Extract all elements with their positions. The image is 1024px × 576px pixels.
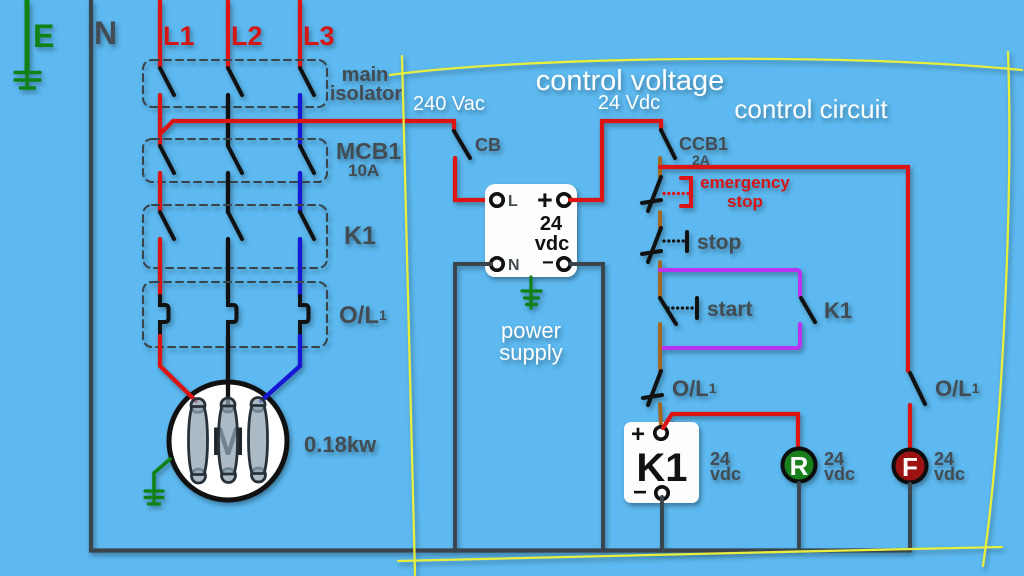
brown control bus O/L1 to K1 coil [660, 404, 661, 428]
svg-text:control circuit: control circuit [734, 94, 888, 124]
wire L2 to motor [226, 337, 230, 410]
svg-text:24 Vdc: 24 Vdc [598, 92, 660, 114]
svg-text:O/L1: O/L1 [339, 302, 387, 329]
svg-text:+: + [631, 421, 645, 448]
svg-text:+: + [537, 185, 553, 215]
svg-text:O/L1: O/L1 [935, 376, 980, 401]
wire L1 MCB1 to K1 [158, 173, 162, 212]
earth symbol E [15, 72, 40, 88]
svg-text:stop: stop [697, 231, 741, 254]
svg-text:isolator: isolator [330, 83, 402, 105]
motor earth symbol [145, 488, 163, 504]
yellow freehand frame bottom edge [398, 547, 1002, 561]
240 Vac tap wire [160, 121, 454, 134]
breaker CCB1 blade [661, 130, 675, 158]
svg-text:stop: stop [727, 192, 763, 211]
motor M1 body [169, 382, 287, 500]
motor earth wire [154, 459, 170, 488]
svg-text:supply: supply [499, 340, 563, 365]
main isolator pole 3 blade [300, 68, 314, 95]
motor winding 3 [249, 398, 268, 483]
svg-text:L: L [508, 193, 518, 210]
wire L2 K1 to O/L1 [226, 239, 230, 298]
brown control bus start to O/L1 [658, 324, 662, 371]
K1 coil box [624, 422, 699, 503]
O/L1 trip contact (NC) [648, 371, 661, 405]
wire L3 MCB1 to K1 [298, 173, 302, 212]
emergency stop mushroom head [681, 178, 691, 206]
wire power supply plus to CCB1 [570, 121, 661, 200]
yellow freehand frame top edge [390, 59, 1022, 75]
red feed wire to right branch [660, 167, 908, 371]
brown control bus e-stop to stop [658, 212, 662, 228]
wire L1 isolator to MCB1 [158, 95, 162, 146]
K1 pole 1 blade [160, 212, 174, 239]
svg-text:F: F [902, 452, 918, 482]
MCB1 pole 1 blade [160, 146, 174, 173]
power supply earth wire [529, 277, 532, 308]
O/L1 heater element pole 1 [160, 296, 169, 337]
wire L1 K1 to O/L1 [158, 239, 162, 297]
F lamp wire to rail [908, 484, 912, 549]
K1 hold-in branch (purple) upper [660, 270, 800, 296]
K1 auxiliary contact blade [801, 298, 815, 322]
svg-text:−: − [633, 479, 647, 506]
svg-text:K1: K1 [824, 298, 852, 323]
phase conductor L3 top [298, 0, 302, 68]
motor winding 2 [219, 398, 238, 483]
wire L1 to motor [160, 336, 196, 401]
right O/L1 contact blade [910, 373, 925, 404]
svg-text:CB: CB [475, 135, 501, 155]
emergency stop contact (NC) [648, 177, 661, 211]
svg-text:emergency: emergency [700, 173, 790, 192]
svg-text:L1: L1 [163, 21, 195, 51]
wire L2 isolator to MCB1 [226, 95, 230, 146]
svg-text:0.18kw: 0.18kw [304, 432, 377, 457]
motor winding 1 [189, 399, 208, 484]
svg-text:CCB1: CCB1 [679, 134, 728, 154]
R lamp [783, 449, 816, 482]
wire L3 to motor [261, 336, 300, 401]
svg-text:L2: L2 [231, 21, 263, 51]
contactor K1 enclosure (dashed) [143, 205, 327, 268]
svg-text:L3: L3 [303, 21, 335, 51]
svg-text:E: E [33, 18, 54, 54]
wire O/L1 to F lamp [908, 405, 912, 447]
main isolator pole 1 blade [160, 68, 174, 95]
phase conductor L1 top [158, 0, 162, 68]
wire L3 K1 to O/L1 [298, 239, 302, 297]
yellow freehand frame right edge [983, 52, 1009, 566]
stop dotted link [664, 239, 685, 242]
emergency stop dotted link [664, 192, 688, 195]
brown control bus stop to start [658, 262, 662, 297]
MCB1 pole 3 blade [300, 146, 314, 173]
svg-text:24: 24 [540, 213, 563, 235]
earth conductor E [25, 0, 30, 72]
K1 hold-in branch (purple) lower [660, 324, 800, 348]
wire K1 plus to R lamp [663, 414, 798, 446]
power supply box [485, 184, 577, 277]
main isolator enclosure (dashed) [143, 60, 327, 107]
svg-text:vdc: vdc [824, 464, 855, 484]
power supply terminal N [491, 258, 503, 270]
wire CB to power supply L [455, 158, 489, 200]
yellow freehand frame left edge [402, 56, 415, 575]
power supply N wire to neutral rail [455, 264, 491, 549]
main isolator pole 2 blade [228, 68, 242, 95]
start contact (NO) blade [660, 298, 676, 324]
svg-text:R: R [790, 451, 809, 481]
svg-text:N: N [94, 15, 117, 51]
wire L2 MCB1 to K1 [226, 173, 230, 212]
O/L1 heater element pole 2 [228, 296, 237, 337]
MCB1 pole 2 blade [228, 146, 242, 173]
neutral conductor N [91, 0, 910, 551]
svg-text:vdc: vdc [934, 464, 965, 484]
svg-text:start: start [707, 298, 753, 321]
power supply minus wire to bottom rail [570, 264, 603, 549]
svg-text:240 Vac: 240 Vac [413, 93, 485, 115]
brown control bus CCB1 to e-stop [658, 158, 662, 177]
power supply earth symbol [522, 291, 541, 305]
svg-text:10A: 10A [348, 161, 379, 180]
phase conductor L2 top [226, 0, 230, 68]
MCB1 enclosure (dashed) [143, 139, 327, 182]
start dotted link [668, 306, 694, 309]
stop contact (NC) [648, 228, 661, 262]
K1 coil minus wire to rail [660, 497, 664, 549]
power supply terminal L [491, 194, 503, 206]
wire L3 isolator to MCB1 [298, 95, 302, 146]
svg-text:O/L1: O/L1 [672, 376, 717, 401]
start actuator bar [695, 298, 699, 318]
K1 pole 2 blade [228, 212, 242, 239]
O/L1 heater element pole 3 [300, 296, 309, 337]
overload O/L1 enclosure (dashed) [143, 282, 327, 347]
svg-text:K1: K1 [344, 222, 376, 250]
svg-text:N: N [508, 257, 520, 274]
F lamp [894, 450, 927, 483]
K1 pole 3 blade [300, 212, 314, 239]
svg-text:−: − [542, 252, 554, 274]
svg-text:vdc: vdc [710, 464, 741, 484]
stop actuator bar [685, 232, 689, 251]
R lamp wire to rail [797, 483, 801, 549]
circuit breaker CB blade [454, 131, 470, 158]
